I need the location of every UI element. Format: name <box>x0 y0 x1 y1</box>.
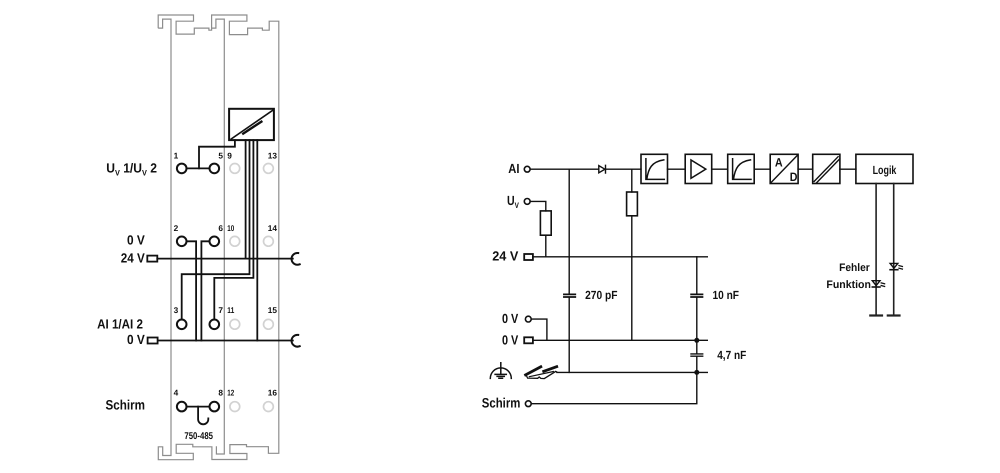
resistor R2 (input) <box>627 192 638 216</box>
pale contact circle 10 <box>230 236 240 246</box>
pale contact circle 15 <box>264 319 274 329</box>
Schirm terminal <box>525 401 531 407</box>
svg-text:10 nF: 10 nF <box>713 288 740 302</box>
24V terminal square (right) <box>524 254 533 260</box>
wire block1-block2 <box>668 168 686 170</box>
svg-text:AI 1/AI 2: AI 1/AI 2 <box>97 317 143 332</box>
LED Fehler <box>890 263 902 269</box>
pale contact circle 11 <box>230 319 240 329</box>
earth symbol <box>490 363 511 379</box>
capacitor C2 10nF <box>691 294 702 297</box>
converter short parallel diagonal <box>243 122 261 134</box>
amplifier block 2 <box>685 154 712 183</box>
pale contact circle 12 <box>230 402 240 412</box>
svg-text:15: 15 <box>268 305 278 315</box>
pale contact circle 16 <box>264 402 274 412</box>
24V rail (right) <box>533 256 707 258</box>
wire block2-block3 <box>712 168 728 170</box>
svg-text:11: 11 <box>227 305 234 315</box>
svg-text:7: 7 <box>218 305 223 315</box>
pale contact circle 14 <box>264 236 274 246</box>
wire: resistor R2 to 0V line <box>631 216 633 340</box>
wire: 10nF to 0V line <box>696 298 698 340</box>
svg-text:0 V: 0 V <box>127 232 145 247</box>
filter block 1 <box>641 154 668 183</box>
0V terminal square (left) <box>148 338 158 344</box>
svg-text:5: 5 <box>218 150 223 160</box>
wire A: converter to 24V rail <box>245 140 247 259</box>
svg-text:A: A <box>775 156 783 170</box>
0V line (right) <box>533 339 707 341</box>
svg-text:3: 3 <box>174 305 179 315</box>
resistor R1 (Uv) <box>540 211 551 235</box>
svg-text:13: 13 <box>268 150 278 160</box>
svg-text:750-485: 750-485 <box>184 431 213 442</box>
wire: Uv terminal to resistor R1 <box>530 201 546 211</box>
svg-text:1: 1 <box>174 150 179 160</box>
svg-text:4,7 nF: 4,7 nF <box>717 348 746 362</box>
svg-text:UV: UV <box>507 193 519 210</box>
DC/DC converter U1 box <box>229 109 274 140</box>
svg-text:UV 1/UV 2: UV 1/UV 2 <box>106 160 157 177</box>
24V rail (left module) <box>157 258 292 260</box>
svg-text:Fehler: Fehler <box>839 262 870 274</box>
svg-text:0 V: 0 V <box>502 332 518 347</box>
0V terminal (circle) <box>525 316 531 322</box>
svg-text:24 V: 24 V <box>492 248 518 263</box>
LED wire 1 end bar <box>870 314 882 316</box>
svg-text:Funktion: Funktion <box>826 279 871 291</box>
module housing outline (top profile, side walls, bottom profile) <box>158 15 279 460</box>
0V rail (left module) <box>158 340 293 342</box>
wire B: converter to terminal 3 <box>182 140 250 319</box>
diode D1 <box>599 165 606 173</box>
svg-text:0 V: 0 V <box>127 332 145 347</box>
filter block 3 curve <box>733 159 751 180</box>
pale contact circle 13 <box>264 164 274 174</box>
wire: bridge terminal 4 - terminal 8 (shield) <box>187 406 209 408</box>
wire: terminal 2 to 0V rail <box>187 241 196 340</box>
A/D diagonal <box>771 156 797 183</box>
wire: bridge terminal 1 - terminal 5 <box>187 167 209 169</box>
filter block 3 <box>728 154 755 183</box>
capacitor C1 270pF <box>564 294 575 297</box>
svg-text:9: 9 <box>227 150 232 160</box>
filter block 1 curve <box>646 159 664 180</box>
node: AI to 270pF branch <box>568 169 570 293</box>
converter diagonal <box>231 110 272 138</box>
terminal 7 <box>210 320 220 330</box>
wire block3-block4 <box>754 168 770 170</box>
node: AI to measuring resistor branch <box>631 169 633 192</box>
wire: 270pF to shield ground line <box>568 298 570 372</box>
terminal 3 <box>177 320 187 330</box>
terminal 5 <box>210 164 220 174</box>
svg-text:2: 2 <box>174 223 179 233</box>
svg-text:Schirm: Schirm <box>106 398 146 413</box>
svg-text:10: 10 <box>227 223 234 233</box>
wire block4-block5 <box>798 168 813 170</box>
svg-text:4: 4 <box>174 388 179 398</box>
svg-text:Logik: Logik <box>873 163 897 177</box>
terminal 6 <box>210 237 220 247</box>
svg-text:AI: AI <box>508 161 519 176</box>
svg-text:16: 16 <box>268 388 278 398</box>
24V rail continuation hook <box>292 253 300 265</box>
svg-text:Schirm: Schirm <box>482 396 521 411</box>
terminal 4 <box>177 402 187 412</box>
0V terminal square (right) <box>524 337 533 343</box>
Uv terminal <box>524 199 530 205</box>
LED wire 2 end bar <box>888 314 900 316</box>
wire C: converter to terminal 7 <box>214 140 253 319</box>
wire: diode to filter block <box>607 168 642 170</box>
wire: AI terminal to diode <box>530 168 598 170</box>
0V rail continuation hook <box>292 335 300 347</box>
Schirm wire to ground junction <box>531 372 697 403</box>
LED wire 2 (Fehler) from Logik <box>893 184 895 315</box>
wire: resistor R1 to 24V rail <box>545 235 547 257</box>
A/D converter block 4 <box>770 154 798 183</box>
pale contact circle 9 <box>230 164 240 174</box>
terminal 8 <box>210 402 220 412</box>
DIN rail shield clamp symbol <box>526 367 541 375</box>
LED Funktion <box>872 281 884 287</box>
24V terminal square (left) <box>147 256 157 262</box>
amplifier triangle <box>691 160 706 178</box>
svg-text:6: 6 <box>218 223 223 233</box>
capacitor C3 4.7nF <box>691 340 703 372</box>
svg-text:8: 8 <box>218 388 223 398</box>
wire D: converter to 0V rail <box>256 140 258 340</box>
shield ground line <box>557 371 707 373</box>
svg-text:D: D <box>790 170 798 184</box>
terminal 2 <box>177 237 187 247</box>
isolation double diagonal <box>814 157 840 183</box>
10nF branch from 24V rail <box>696 257 698 294</box>
AI input terminal <box>524 166 530 172</box>
Logik block U2 <box>856 154 913 183</box>
terminal 1 <box>177 164 187 174</box>
wire block5-logik <box>840 168 856 170</box>
module middle wall <box>212 19 225 454</box>
wire: converter feed to terminals 1/5 <box>199 140 235 168</box>
wire: 0V circle terminal down to 0V line <box>531 319 547 340</box>
LED wire 1 (Funktion) from Logik <box>875 184 877 315</box>
junction dot 0V/10nF <box>694 338 699 343</box>
svg-text:14: 14 <box>268 223 278 233</box>
svg-text:0 V: 0 V <box>502 311 518 326</box>
wire: terminal 6 to 0V rail <box>201 241 209 340</box>
shield hook symbol <box>198 407 208 425</box>
junction dot ground/4.7nF <box>694 370 699 375</box>
isolation block 5 <box>813 154 840 183</box>
svg-text:270 pF: 270 pF <box>585 288 617 302</box>
svg-text:12: 12 <box>227 388 234 398</box>
svg-text:24 V: 24 V <box>121 251 145 266</box>
